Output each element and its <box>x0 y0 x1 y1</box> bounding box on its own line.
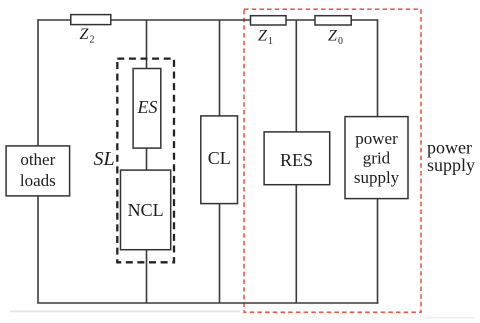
wire: RES bottom vertical <box>295 185 297 303</box>
svg-text:SL: SL <box>94 148 115 170</box>
impedance Z2 box <box>71 15 111 25</box>
svg-text:other: other <box>20 150 55 169</box>
svg-text:CL: CL <box>208 148 231 168</box>
ES box <box>133 69 161 149</box>
wire: NCL bottom vertical <box>146 250 148 303</box>
svg-text:Z: Z <box>328 28 338 45</box>
impedance Z1 box <box>251 16 287 25</box>
svg-text:NCL: NCL <box>128 200 164 220</box>
svg-text:RES: RES <box>280 150 313 170</box>
wire: CL branch top vertical <box>219 20 221 116</box>
wire: RES branch top vertical <box>295 20 297 132</box>
scan artifact band bottom <box>10 311 240 313</box>
power grid supply box <box>345 117 408 199</box>
svg-text:power: power <box>355 129 398 148</box>
wire: bottom horizontal <box>37 302 378 304</box>
impedance Z0 box <box>315 16 351 25</box>
SL dashed box <box>117 59 174 263</box>
wire: CL bottom vertical <box>219 204 221 303</box>
wire: Z0 to right corner horizontal <box>351 19 377 21</box>
NCL box <box>121 170 171 250</box>
svg-text:supply: supply <box>427 155 475 175</box>
wire: power grid supply top vertical <box>377 19 379 116</box>
svg-text:ES: ES <box>137 97 158 117</box>
wire: ES to NCL vertical <box>146 148 148 170</box>
svg-text:0: 0 <box>338 36 343 47</box>
svg-text:Z: Z <box>80 26 90 43</box>
RES box <box>264 132 330 185</box>
svg-text:grid: grid <box>363 149 391 168</box>
red dashed box: power supply region <box>244 9 421 312</box>
wire: left vertical lower <box>37 196 39 303</box>
svg-text:supply: supply <box>354 168 400 187</box>
wire: power grid supply bottom vertical <box>377 199 379 304</box>
wire: Z1 to Z0 horizontal <box>286 19 315 21</box>
wire: top left horizontal to Z2 <box>38 19 71 21</box>
other loads box <box>6 146 70 196</box>
CL box <box>201 116 238 204</box>
wire: Z2 to Z1 horizontal <box>111 19 251 21</box>
svg-text:loads: loads <box>20 171 56 190</box>
wire: ES branch top vertical <box>146 20 148 69</box>
svg-text:1: 1 <box>268 36 273 47</box>
svg-text:2: 2 <box>90 35 95 46</box>
svg-text:Z: Z <box>258 28 268 45</box>
wire: left vertical upper <box>37 19 39 146</box>
